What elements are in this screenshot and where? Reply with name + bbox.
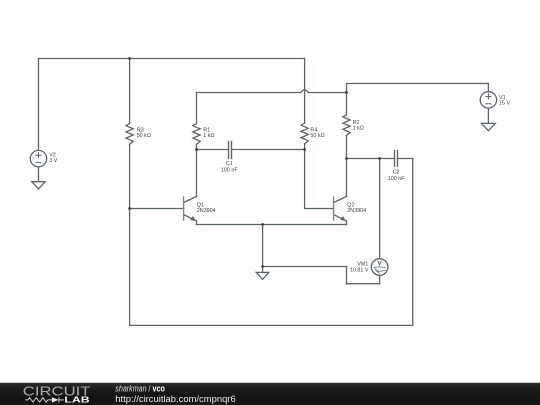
svg-text:3 V: 3 V xyxy=(49,158,57,164)
svg-text:2N3904: 2N3904 xyxy=(197,208,216,214)
svg-text:1 kΩ: 1 kΩ xyxy=(203,133,214,139)
svg-text:LAB: LAB xyxy=(64,396,89,405)
svg-text:100 nF: 100 nF xyxy=(221,167,238,173)
svg-text:C2: C2 xyxy=(393,170,400,176)
svg-text:100 nF: 100 nF xyxy=(388,176,405,182)
svg-text:C1: C1 xyxy=(226,161,233,167)
svg-text:50 kΩ: 50 kΩ xyxy=(310,133,324,139)
svg-text:sharkman / vco: sharkman / vco xyxy=(115,384,165,394)
svg-text:1 kΩ: 1 kΩ xyxy=(353,125,364,131)
svg-text:15 V: 15 V xyxy=(499,101,510,107)
svg-text:2N3904: 2N3904 xyxy=(347,208,366,214)
svg-text:50 kΩ: 50 kΩ xyxy=(137,133,151,139)
svg-text:10.81 V: 10.81 V xyxy=(350,267,369,273)
svg-text:http://circuitlab.com/cmpnqr6: http://circuitlab.com/cmpnqr6 xyxy=(115,394,235,404)
